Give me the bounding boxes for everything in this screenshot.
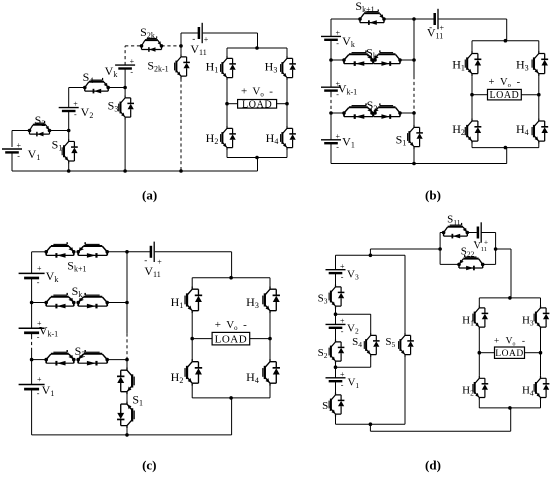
svg-text:+: + — [130, 57, 135, 66]
svg-text:-: - — [336, 142, 339, 151]
svg-text:+: + — [340, 262, 345, 271]
svg-text:-: - — [37, 278, 40, 287]
svg-text:(a): (a) — [142, 188, 157, 203]
svg-text:+: + — [488, 77, 494, 88]
svg-text:LOAD: LOAD — [242, 99, 272, 110]
svg-text:LOAD: LOAD — [490, 90, 520, 101]
svg-text:-: - — [341, 380, 344, 389]
svg-text:-: - — [130, 68, 133, 77]
svg-text:-: - — [522, 337, 525, 347]
svg-text:-: - — [269, 86, 273, 98]
svg-text:-: - — [37, 389, 40, 398]
svg-text:+: + — [241, 86, 247, 98]
svg-text:+: + — [204, 35, 209, 44]
svg-text:+: + — [336, 29, 341, 38]
svg-text:-: - — [341, 327, 344, 336]
svg-text:-: - — [517, 77, 521, 88]
svg-text:+: + — [340, 317, 345, 326]
svg-text:LOAD: LOAD — [215, 333, 248, 345]
svg-text:-: - — [74, 110, 77, 119]
svg-text:+: + — [73, 100, 78, 109]
svg-text:(b): (b) — [425, 188, 441, 203]
svg-text:+: + — [17, 141, 22, 150]
svg-text:+: + — [37, 264, 42, 273]
svg-text:(c): (c) — [142, 457, 156, 472]
svg-text:LOAD: LOAD — [495, 349, 523, 359]
svg-text:+: + — [215, 319, 221, 331]
svg-text:+: + — [340, 370, 345, 379]
svg-text:-: - — [17, 152, 20, 161]
svg-text:+: + — [494, 337, 499, 347]
svg-text:+: + — [157, 258, 162, 267]
svg-text:-: - — [341, 272, 344, 281]
svg-text:(d): (d) — [425, 457, 441, 472]
svg-text:-: - — [336, 39, 339, 48]
svg-text:-: - — [243, 319, 247, 331]
svg-text:+: + — [336, 132, 341, 141]
